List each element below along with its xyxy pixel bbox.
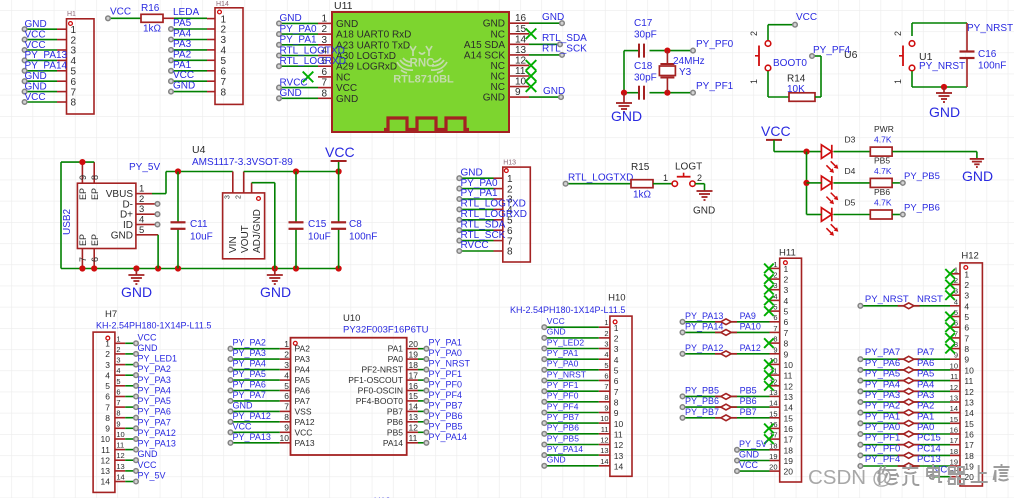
svg-text:PB7: PB7 bbox=[740, 407, 757, 417]
svg-text:PY_PA1: PY_PA1 bbox=[547, 348, 579, 358]
svg-text:ADJ/GND: ADJ/GND bbox=[252, 209, 263, 253]
left pin numbers U11 bbox=[321, 13, 327, 99]
svg-text:RTL_SDA: RTL_SDA bbox=[461, 219, 506, 230]
wire ground rail bbox=[61, 268, 339, 270]
svg-text:30pF: 30pF bbox=[634, 73, 657, 84]
svg-text:PY_PA0: PY_PA0 bbox=[280, 24, 317, 35]
ground bbox=[697, 191, 713, 200]
capacitor C16 bbox=[960, 50, 975, 52]
svg-text:8: 8 bbox=[116, 409, 120, 418]
svg-text:PY_PA14: PY_PA14 bbox=[685, 321, 723, 331]
svg-text:VCC: VCC bbox=[325, 144, 355, 160]
svg-text:RVCC: RVCC bbox=[280, 77, 308, 88]
svg-text:11: 11 bbox=[964, 376, 973, 386]
svg-text:2: 2 bbox=[105, 349, 110, 359]
svg-text:100nF: 100nF bbox=[978, 61, 1006, 72]
svg-text:RTL_LOGRXD: RTL_LOGRXD bbox=[280, 56, 347, 67]
svg-text:1: 1 bbox=[221, 14, 227, 25]
svg-text:10: 10 bbox=[101, 434, 111, 444]
svg-text:PC13: PC13 bbox=[917, 454, 941, 465]
svg-text:PA10: PA10 bbox=[740, 321, 761, 331]
svg-text:PA4: PA4 bbox=[295, 365, 311, 375]
svg-text:PY_NRST: PY_NRST bbox=[967, 23, 1013, 34]
net tie bbox=[715, 417, 721, 419]
pin numbers H10 bbox=[614, 323, 624, 472]
svg-text:2: 2 bbox=[236, 195, 243, 199]
svg-text:PY_PA2: PY_PA2 bbox=[865, 401, 900, 412]
svg-text:1: 1 bbox=[614, 323, 619, 333]
svg-text:GND: GND bbox=[547, 327, 566, 337]
svg-text:EP: EP bbox=[90, 188, 100, 200]
svg-text:KH-2.54PH180-1X14P-L11.5: KH-2.54PH180-1X14P-L11.5 bbox=[510, 305, 625, 315]
svg-text:7: 7 bbox=[78, 257, 88, 262]
svg-text:PY_PA3: PY_PA3 bbox=[233, 348, 266, 358]
junction bbox=[941, 84, 947, 90]
wire VCC to R16 bbox=[108, 17, 141, 19]
svg-text:PA1: PA1 bbox=[917, 411, 934, 422]
wire pin18 H12 bbox=[860, 454, 950, 456]
svg-text:PY_PF1: PY_PF1 bbox=[865, 433, 900, 444]
svg-text:19: 19 bbox=[964, 462, 974, 472]
svg-text:PY_PA13: PY_PA13 bbox=[138, 439, 176, 449]
no-connect pin 12 bbox=[526, 60, 537, 71]
svg-text:12: 12 bbox=[964, 387, 974, 397]
wire pin20 H11 bbox=[737, 470, 770, 472]
svg-text:C8: C8 bbox=[349, 219, 362, 230]
wire VBUS bbox=[150, 193, 152, 195]
wire pin13 H12 bbox=[860, 401, 950, 403]
svg-text:20: 20 bbox=[784, 467, 794, 477]
svg-text:PA7: PA7 bbox=[295, 396, 311, 406]
svg-text:13: 13 bbox=[614, 451, 624, 461]
net tie bbox=[715, 353, 721, 355]
resistor R15 bbox=[631, 180, 653, 188]
wire pin4 H12 bbox=[860, 305, 950, 307]
svg-text:5: 5 bbox=[221, 56, 227, 67]
svg-text:U11: U11 bbox=[334, 0, 353, 12]
svg-text:PA3: PA3 bbox=[295, 354, 311, 364]
wire led-res D5 bbox=[833, 214, 870, 216]
mcu U10 body bbox=[291, 338, 407, 455]
svg-text:PY_NRST: PY_NRST bbox=[865, 294, 909, 305]
svg-text:5: 5 bbox=[105, 381, 110, 391]
pin 1 marker H11 bbox=[784, 261, 788, 265]
svg-text:13: 13 bbox=[101, 466, 111, 476]
svg-text:14: 14 bbox=[614, 462, 624, 472]
svg-text:PY_PA5: PY_PA5 bbox=[865, 369, 900, 380]
svg-text:2: 2 bbox=[893, 31, 903, 36]
pin 1 marker H7 bbox=[106, 336, 110, 340]
svg-text:GND: GND bbox=[739, 450, 760, 460]
svg-text:GND: GND bbox=[280, 88, 302, 99]
no-connect pin 11 bbox=[526, 71, 537, 82]
svg-text:9: 9 bbox=[614, 408, 619, 418]
wire pin16 H12 bbox=[860, 433, 950, 435]
svg-text:11: 11 bbox=[101, 445, 110, 455]
svg-text:13: 13 bbox=[600, 446, 608, 455]
svg-text:GND: GND bbox=[173, 81, 195, 92]
svg-text:PY_PB6: PY_PB6 bbox=[429, 411, 463, 421]
svg-text:15: 15 bbox=[784, 413, 794, 423]
svg-text:PA4: PA4 bbox=[917, 379, 934, 390]
net tie bbox=[898, 422, 904, 424]
pin numbers H13 bbox=[507, 174, 513, 258]
svg-text:16: 16 bbox=[964, 430, 974, 440]
svg-text:PY_5V: PY_5V bbox=[138, 471, 166, 481]
net tie bbox=[898, 412, 904, 414]
svg-text:PY_PA6: PY_PA6 bbox=[865, 358, 900, 369]
pin numbers H11 bbox=[784, 264, 794, 477]
ground 1 bbox=[128, 275, 144, 284]
svg-text:PB5: PB5 bbox=[740, 385, 757, 395]
svg-text:10uF: 10uF bbox=[308, 232, 331, 243]
svg-text:C17: C17 bbox=[634, 18, 653, 29]
svg-text:7: 7 bbox=[604, 382, 608, 391]
svg-text:12: 12 bbox=[101, 455, 111, 465]
led D3 bbox=[821, 145, 831, 159]
svg-text:PY_PB6: PY_PB6 bbox=[547, 423, 579, 433]
svg-text:PA2: PA2 bbox=[295, 344, 311, 354]
svg-text:1kΩ: 1kΩ bbox=[633, 190, 652, 201]
svg-text:GND: GND bbox=[461, 167, 483, 178]
svg-text:RTL_LOGRXD: RTL_LOGRXD bbox=[461, 209, 528, 220]
svg-text:PA14: PA14 bbox=[383, 438, 403, 448]
svg-text:PY_PB7: PY_PB7 bbox=[547, 412, 579, 422]
svg-text:PY_PA14: PY_PA14 bbox=[25, 61, 68, 72]
led D5 bbox=[821, 208, 831, 222]
junction rail bbox=[293, 265, 299, 271]
svg-text:PY_PF0: PY_PF0 bbox=[429, 380, 463, 390]
svg-text:H12: H12 bbox=[961, 251, 978, 262]
net tie bbox=[715, 331, 721, 333]
svg-text:5: 5 bbox=[116, 377, 120, 386]
svg-text:10: 10 bbox=[784, 360, 794, 370]
svg-text:GND: GND bbox=[543, 86, 565, 97]
svg-text:H11: H11 bbox=[779, 248, 796, 259]
svg-text:7: 7 bbox=[116, 398, 120, 407]
svg-text:11: 11 bbox=[784, 371, 793, 381]
svg-text:6: 6 bbox=[90, 257, 100, 262]
pin numbers H12 bbox=[964, 269, 974, 482]
svg-text:8: 8 bbox=[90, 175, 100, 180]
svg-text:2: 2 bbox=[321, 24, 327, 35]
svg-text:PY_PA13: PY_PA13 bbox=[685, 311, 723, 321]
svg-text:18: 18 bbox=[409, 360, 419, 370]
connector H11 bbox=[780, 258, 802, 482]
svg-text:100nF: 100nF bbox=[349, 232, 377, 243]
ground bbox=[616, 103, 632, 112]
svg-text:GND: GND bbox=[25, 71, 47, 82]
svg-text:PY_5V: PY_5V bbox=[739, 439, 767, 449]
svg-text:GND: GND bbox=[280, 13, 302, 24]
svg-text:PY_PB7: PY_PB7 bbox=[685, 407, 719, 417]
wire pin14 SDA bbox=[529, 43, 560, 45]
wire led-res D4 bbox=[833, 182, 870, 184]
svg-text:15: 15 bbox=[515, 24, 527, 35]
wire col to led D4 bbox=[807, 182, 822, 184]
ground 1 stem bbox=[135, 269, 137, 276]
svg-text:6: 6 bbox=[116, 388, 120, 397]
svg-text:KH-2.54PH180-1X14P-L11.5: KH-2.54PH180-1X14P-L11.5 bbox=[96, 321, 211, 331]
net labels H1 bbox=[25, 19, 68, 103]
svg-text:RTL8710BL: RTL8710BL bbox=[393, 74, 454, 86]
svg-text:6: 6 bbox=[321, 67, 327, 78]
svg-text:1: 1 bbox=[749, 79, 759, 84]
svg-text:PWR: PWR bbox=[874, 124, 894, 134]
svg-text:GND: GND bbox=[25, 81, 47, 92]
svg-text:7: 7 bbox=[773, 324, 777, 333]
svg-text:7: 7 bbox=[221, 77, 227, 88]
svg-text:PB6: PB6 bbox=[740, 396, 757, 406]
wire 5V rail bbox=[166, 171, 233, 173]
svg-text:C15: C15 bbox=[308, 219, 327, 230]
left pin numbers U10 bbox=[280, 339, 290, 443]
svg-text:PY_PA5: PY_PA5 bbox=[138, 396, 171, 406]
wire pin15 H11 bbox=[683, 417, 770, 419]
svg-text:PA7: PA7 bbox=[917, 347, 934, 358]
svg-text:17: 17 bbox=[950, 436, 958, 445]
svg-text:VCC: VCC bbox=[173, 70, 194, 81]
svg-text:1: 1 bbox=[663, 173, 668, 183]
svg-text:R16: R16 bbox=[141, 3, 160, 14]
net tie bbox=[898, 390, 904, 392]
resistor R16 bbox=[141, 14, 163, 22]
svg-text:PY_PB7: PY_PB7 bbox=[429, 400, 463, 410]
svg-text:PY_PA6: PY_PA6 bbox=[138, 407, 171, 417]
svg-text:PY_PA12: PY_PA12 bbox=[233, 411, 271, 421]
svg-text:RVCC: RVCC bbox=[461, 240, 489, 251]
svg-text:PA2: PA2 bbox=[173, 49, 192, 60]
svg-text:H1: H1 bbox=[67, 11, 76, 18]
svg-text:1: 1 bbox=[284, 339, 289, 349]
svg-text:C16: C16 bbox=[978, 49, 997, 60]
wire pin13 SCK bbox=[529, 54, 562, 56]
svg-text:A15 SDA: A15 SDA bbox=[464, 40, 505, 51]
svg-text:VCC: VCC bbox=[25, 40, 46, 51]
pins H10 bbox=[542, 325, 610, 468]
svg-text:7: 7 bbox=[964, 333, 969, 343]
svg-text:2: 2 bbox=[964, 280, 969, 290]
svg-text:1kΩ: 1kΩ bbox=[143, 24, 162, 35]
svg-text:NC: NC bbox=[491, 82, 505, 93]
wire USB GND pin bbox=[150, 234, 158, 236]
module antenna mark bbox=[397, 46, 447, 73]
net labels H10 bbox=[547, 316, 586, 465]
net tie bbox=[898, 401, 904, 403]
svg-text:H14: H14 bbox=[216, 1, 229, 8]
svg-text:NC: NC bbox=[336, 72, 350, 83]
svg-text:PY_PA2: PY_PA2 bbox=[138, 364, 171, 374]
svg-text:3: 3 bbox=[321, 35, 327, 46]
wire pin17 H12 bbox=[860, 444, 950, 446]
svg-text:PF4-BOOT0: PF4-BOOT0 bbox=[356, 396, 404, 406]
svg-text:VCC: VCC bbox=[138, 460, 158, 470]
svg-text:GND: GND bbox=[138, 449, 159, 459]
svg-text:PB6: PB6 bbox=[874, 187, 890, 197]
ground stem bbox=[943, 87, 945, 93]
net labels H13 bbox=[461, 167, 528, 251]
svg-text:PY_PA3: PY_PA3 bbox=[865, 390, 900, 401]
junction row2 bbox=[803, 180, 809, 186]
svg-text:3: 3 bbox=[221, 35, 227, 46]
svg-text:GND: GND bbox=[693, 206, 715, 217]
svg-text:12: 12 bbox=[409, 423, 419, 433]
svg-text:24MHz: 24MHz bbox=[673, 56, 705, 67]
wire pin10 H12 bbox=[860, 369, 950, 371]
svg-text:12: 12 bbox=[600, 436, 608, 445]
svg-text:A14 SCK: A14 SCK bbox=[464, 50, 505, 61]
module watermark bbox=[393, 58, 454, 86]
svg-text:EP: EP bbox=[90, 234, 100, 246]
junction rail bottom bbox=[621, 90, 627, 96]
net tie bbox=[898, 358, 904, 360]
svg-text:PF1-OSCOUT: PF1-OSCOUT bbox=[348, 375, 403, 385]
svg-text:3: 3 bbox=[105, 360, 110, 370]
ground bbox=[970, 159, 984, 167]
svg-text:11: 11 bbox=[614, 430, 623, 440]
svg-text:4: 4 bbox=[604, 350, 608, 359]
svg-text:15: 15 bbox=[409, 391, 419, 401]
ground bbox=[936, 93, 952, 102]
svg-text:5: 5 bbox=[71, 67, 77, 78]
svg-text:13: 13 bbox=[409, 412, 419, 422]
svg-text:PB6: PB6 bbox=[387, 417, 403, 427]
wire pin6 H11 bbox=[683, 321, 770, 323]
svg-text:PB7: PB7 bbox=[387, 406, 403, 416]
right pins U11 bbox=[509, 23, 529, 97]
svg-text:EP: EP bbox=[78, 234, 88, 246]
svg-text:GND: GND bbox=[547, 455, 566, 465]
svg-text:2: 2 bbox=[71, 35, 77, 46]
pin numbers H1 bbox=[71, 25, 77, 109]
junction rail bbox=[336, 265, 342, 271]
svg-text:14: 14 bbox=[515, 34, 527, 45]
svg-text:4: 4 bbox=[964, 301, 969, 311]
svg-text:VCC: VCC bbox=[25, 92, 46, 103]
svg-text:PC14: PC14 bbox=[917, 443, 941, 454]
pins H13 bbox=[457, 176, 503, 253]
right pin names U10 bbox=[348, 344, 403, 448]
wire R15 to LOGT bbox=[653, 183, 672, 185]
resistor PB5 bbox=[870, 178, 892, 187]
connector H14 bbox=[215, 8, 243, 105]
wire VCC bbox=[768, 24, 795, 26]
pin numbers USB2 bbox=[139, 184, 144, 236]
svg-text:PY_NRST: PY_NRST bbox=[547, 369, 586, 379]
svg-text:PA2: PA2 bbox=[917, 401, 934, 412]
svg-text:PA12: PA12 bbox=[295, 417, 315, 427]
svg-text:PA5: PA5 bbox=[173, 18, 192, 29]
svg-text:LOGT: LOGT bbox=[675, 162, 702, 173]
svg-text:1: 1 bbox=[71, 25, 77, 36]
wire left rail bbox=[623, 51, 625, 93]
svg-text:30pF: 30pF bbox=[634, 30, 657, 41]
wire crystal top bbox=[624, 50, 639, 52]
svg-text:3: 3 bbox=[116, 356, 120, 365]
net tie bbox=[898, 305, 904, 307]
wire button to R14 bbox=[767, 71, 769, 97]
junction C11 top bbox=[175, 168, 181, 174]
svg-text:5: 5 bbox=[614, 366, 619, 376]
svg-text:PY_PF4: PY_PF4 bbox=[429, 390, 463, 400]
svg-text:USB2: USB2 bbox=[62, 208, 73, 235]
capacitor C16 leads bbox=[966, 23, 968, 52]
svg-text:PY_PF1: PY_PF1 bbox=[429, 369, 463, 379]
junction top bbox=[664, 48, 670, 54]
stub numbers H12 bbox=[950, 265, 958, 477]
resistor R14 bbox=[789, 93, 815, 102]
svg-text:10: 10 bbox=[280, 433, 290, 443]
svg-text:PY_PF4: PY_PF4 bbox=[547, 401, 579, 411]
svg-text:PY32F003F16P6TU: PY32F003F16P6TU bbox=[343, 325, 429, 336]
svg-text:VCC: VCC bbox=[739, 460, 759, 470]
svg-text:R15: R15 bbox=[631, 162, 650, 173]
svg-text:A23 UART0 TxD: A23 UART0 TxD bbox=[336, 40, 410, 51]
net tie bbox=[898, 465, 904, 467]
module U11 RTL8710BL body bbox=[332, 12, 509, 132]
svg-text:6: 6 bbox=[105, 392, 110, 402]
svg-text:15: 15 bbox=[950, 415, 958, 424]
svg-text:VCC: VCC bbox=[336, 83, 357, 94]
wire col to led D5 bbox=[807, 214, 822, 216]
net tie bbox=[898, 454, 904, 456]
svg-text:PY_PB6: PY_PB6 bbox=[685, 396, 719, 406]
svg-text:14: 14 bbox=[409, 402, 419, 412]
svg-text:20: 20 bbox=[964, 472, 974, 482]
net labels H7 bbox=[138, 332, 178, 480]
ground 2 bbox=[267, 275, 283, 284]
no-connect marks H11 bbox=[764, 264, 774, 444]
wire pin18 H11 bbox=[737, 449, 770, 451]
wire R14 to PY_PF4 bbox=[815, 96, 821, 98]
wire pin11 H12 bbox=[860, 380, 950, 382]
svg-text:10: 10 bbox=[600, 414, 608, 423]
svg-text:GND: GND bbox=[483, 93, 505, 104]
svg-text:5: 5 bbox=[964, 312, 969, 322]
pin names USB2 bbox=[106, 189, 134, 241]
junction EP9 bbox=[79, 159, 85, 165]
svg-text:14: 14 bbox=[784, 403, 794, 413]
svg-text:PB5: PB5 bbox=[874, 155, 890, 165]
pins H12 bbox=[950, 274, 960, 477]
wire pin7 H11 bbox=[683, 331, 770, 333]
pin names U4 bbox=[228, 209, 263, 253]
right pin numbers U11 bbox=[515, 13, 527, 98]
svg-text:9: 9 bbox=[773, 345, 777, 354]
svg-text:13: 13 bbox=[515, 45, 527, 56]
svg-text:10uF: 10uF bbox=[190, 232, 213, 243]
svg-text:VCC: VCC bbox=[796, 12, 817, 23]
svg-text:PY_PA1: PY_PA1 bbox=[461, 188, 498, 199]
svg-text:PA0: PA0 bbox=[917, 422, 934, 433]
svg-text:7: 7 bbox=[105, 402, 110, 412]
junction row1 bbox=[803, 149, 809, 155]
wire LOGT to gnd bbox=[695, 183, 704, 185]
svg-text:PY_PF0: PY_PF0 bbox=[865, 443, 900, 454]
svg-text:13: 13 bbox=[950, 394, 958, 403]
wire pin14 H12 bbox=[860, 412, 950, 414]
svg-text:GND: GND bbox=[483, 19, 505, 30]
svg-text:6: 6 bbox=[71, 77, 77, 88]
svg-text:GND: GND bbox=[336, 94, 358, 105]
svg-text:PA13: PA13 bbox=[295, 438, 315, 448]
svg-text:2: 2 bbox=[507, 184, 513, 195]
junction rail bbox=[91, 265, 97, 271]
svg-text:2: 2 bbox=[284, 349, 289, 359]
wire R16 to H14 bbox=[163, 17, 174, 19]
svg-text:4: 4 bbox=[116, 366, 120, 375]
svg-text:RTL_LOGTXD: RTL_LOGTXD bbox=[461, 199, 526, 210]
